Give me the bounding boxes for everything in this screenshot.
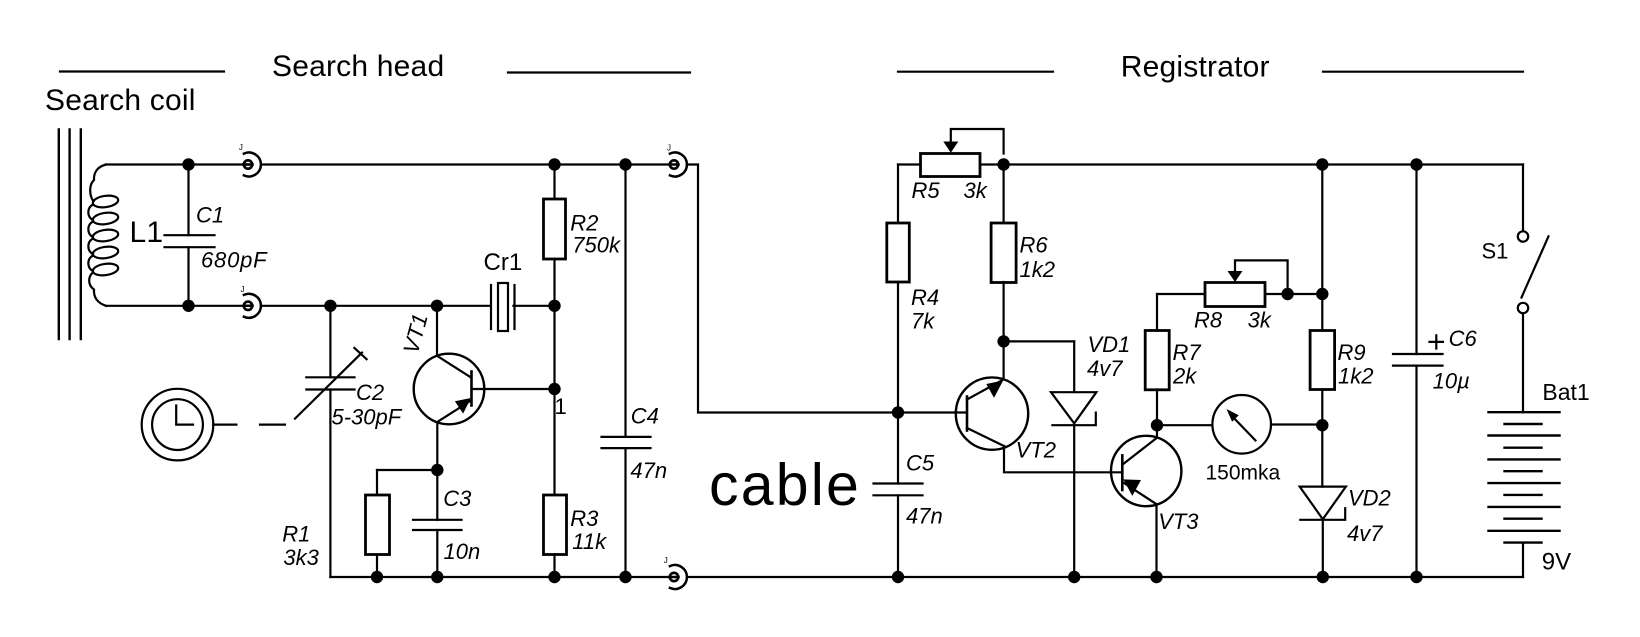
bottom rail [330, 576, 1523, 578]
wire battery bottom to rail [1522, 543, 1524, 577]
zener diode VD2 [1300, 425, 1346, 577]
node dot VT3 emitter bottom [1150, 571, 1162, 583]
resistor R7 [1145, 294, 1169, 438]
node dot C4 bottom [619, 571, 631, 583]
node dot VD2 bottom [1317, 571, 1329, 583]
svg-text:10n: 10n [444, 539, 481, 564]
node dot R9 bottom [1316, 419, 1328, 431]
resistor R1 [366, 470, 390, 577]
connector J4 cable bottom [670, 565, 687, 589]
node dot R1 bottom [371, 571, 383, 583]
title rule left of Registrator [898, 71, 1053, 73]
coil shield line 2 [68, 130, 70, 340]
node dot cable junction R4 [892, 406, 904, 418]
node dot VT1 collector [431, 300, 443, 312]
svg-text:S1: S1 [1482, 239, 1509, 264]
svg-text:4v7: 4v7 [1347, 521, 1383, 546]
cable wire to VT2 base [688, 165, 968, 413]
svg-text:L1: L1 [130, 216, 164, 249]
wire lower rail Cr1 to R2 node [513, 305, 554, 307]
node dot C3 bottom [431, 571, 443, 583]
node 1 dot [548, 383, 560, 395]
svg-text:1k2: 1k2 [1020, 257, 1055, 282]
svg-text:J: J [667, 144, 671, 153]
svg-text:cable: cable [709, 452, 861, 518]
crystal Cr1 [491, 283, 515, 331]
transistor VT2 [956, 341, 1122, 472]
svg-text:Search head: Search head [272, 50, 444, 83]
svg-text:J: J [239, 143, 243, 152]
wire R5 left lead down to R4 [897, 165, 899, 224]
potentiometer R5 [898, 129, 1004, 177]
svg-text:2k: 2k [1172, 363, 1197, 388]
plus sign C6 [1430, 335, 1444, 348]
svg-text:R3: R3 [570, 506, 599, 531]
svg-text:3k: 3k [1248, 307, 1272, 332]
svg-text:C6: C6 [1449, 326, 1478, 351]
resistor R6 [991, 165, 1016, 342]
svg-text:Cr1: Cr1 [484, 249, 523, 276]
node dot VT2 collector [997, 335, 1009, 347]
node dot R7 bottom [1151, 419, 1163, 431]
capacitor C5 [874, 413, 923, 578]
inductor L1 coil [88, 165, 119, 306]
svg-text:R5: R5 [912, 178, 941, 203]
mechanical link dash [260, 424, 285, 426]
capacitor C4 [602, 165, 651, 578]
potentiometer R8 [1157, 260, 1322, 306]
wire top rail registrator [1004, 163, 1523, 165]
svg-text:11k: 11k [572, 529, 607, 554]
node dot C4 top [619, 158, 631, 170]
node dot C5 bottom [892, 571, 904, 583]
svg-text:VT2: VT2 [1016, 438, 1056, 463]
node dot top rail R9 [1316, 158, 1328, 170]
svg-text:R6: R6 [1020, 232, 1049, 257]
node dot R9 line R8 [1316, 288, 1328, 300]
resistor R3 [544, 495, 567, 577]
node dot C2 top [324, 300, 336, 312]
svg-text:R9: R9 [1338, 340, 1366, 365]
svg-text:47n: 47n [630, 458, 667, 483]
svg-text:1: 1 [555, 394, 567, 419]
capacitor C1 [165, 165, 215, 306]
svg-text:47n: 47n [906, 504, 943, 529]
svg-text:VT1: VT1 [398, 311, 433, 356]
svg-text:VT3: VT3 [1158, 509, 1199, 534]
svg-text:3k: 3k [964, 178, 988, 203]
node dot C1 top [182, 158, 194, 170]
resistor R2 [544, 165, 566, 307]
svg-text:C3: C3 [443, 486, 472, 511]
wire lower rail left section [106, 305, 490, 307]
svg-text:5-30pF: 5-30pF [332, 404, 403, 429]
wire VT1 base to node 1 [472, 388, 555, 390]
svg-text:3k3: 3k3 [283, 545, 319, 570]
title rule left of Search head [60, 70, 224, 72]
svg-text:4v7: 4v7 [1087, 356, 1123, 381]
svg-text:150mka: 150mka [1206, 461, 1281, 484]
connector J3 cable top [670, 153, 687, 177]
svg-text:VD1: VD1 [1088, 332, 1131, 357]
svg-text:1k2: 1k2 [1338, 363, 1373, 388]
svg-text:R7: R7 [1173, 340, 1202, 365]
node dot R8 wiper [1281, 288, 1293, 300]
resistor R9 [1310, 165, 1335, 426]
node dot emitter junction [431, 464, 443, 476]
svg-text:680pF: 680pF [201, 247, 268, 272]
resistor R4 [887, 223, 910, 413]
svg-text:VD2: VD2 [1348, 486, 1391, 511]
coil shield line 1 [58, 130, 60, 340]
node dot R2 bottom [548, 300, 560, 312]
capacitor C6 [1393, 165, 1443, 578]
svg-text:Search coil: Search coil [45, 84, 196, 117]
svg-text:Registrator: Registrator [1121, 51, 1270, 84]
svg-text:J: J [664, 556, 668, 565]
node dot C1 bottom [182, 300, 194, 312]
svg-text:R8: R8 [1194, 307, 1223, 332]
svg-text:R4: R4 [911, 285, 939, 310]
coil shield line 3 [80, 130, 82, 340]
wire emitter to R1 [377, 469, 437, 471]
svg-text:C2: C2 [356, 380, 384, 405]
node dot C6 bottom [1410, 571, 1422, 583]
node dot C6 top [1410, 158, 1422, 170]
variable capacitor C2 [295, 306, 367, 577]
title rule right of Registrator [1323, 71, 1523, 73]
meter 150mka [1157, 395, 1322, 454]
wire top rail left section [106, 163, 669, 165]
zener diode VD1 [1004, 341, 1097, 577]
node dot R5 right [997, 158, 1009, 170]
svg-text:10µ: 10µ [1433, 369, 1470, 394]
title rule right of Search head [508, 71, 690, 73]
svg-text:C4: C4 [631, 403, 659, 428]
switch S1 [1518, 165, 1549, 413]
wire R2 node to node 1 [553, 306, 555, 495]
svg-text:R1: R1 [282, 522, 310, 547]
svg-text:9V: 9V [1542, 549, 1571, 576]
svg-text:Bat1: Bat1 [1542, 379, 1589, 405]
svg-text:7k: 7k [911, 309, 935, 334]
svg-text:J: J [241, 285, 245, 294]
capacitor C3 [413, 470, 462, 577]
transistor VT3 [1111, 436, 1181, 577]
node dot R3 bottom [548, 571, 560, 583]
connector J2 lower [244, 294, 261, 318]
transistor VT1 [414, 306, 485, 470]
node dot R2 top [548, 158, 560, 170]
svg-text:750k: 750k [572, 233, 621, 258]
battery Bat1 [1489, 412, 1560, 542]
clock tuning symbol [142, 389, 237, 461]
connector J1 top [244, 153, 261, 177]
svg-text:C5: C5 [906, 451, 935, 476]
node dot VD1 bottom [1068, 571, 1080, 583]
svg-text:C1: C1 [196, 202, 224, 227]
